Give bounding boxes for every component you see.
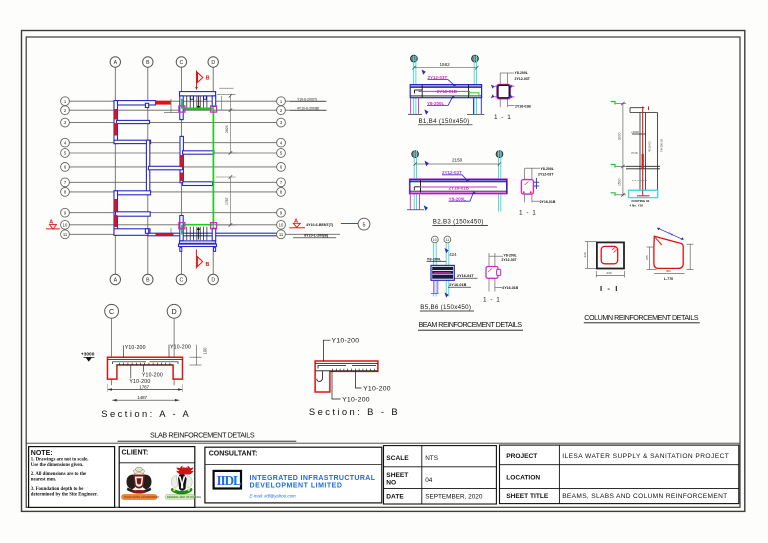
magenta column markers at stair corners <box>179 106 217 229</box>
svg-text:DATE: DATE <box>386 493 404 500</box>
svg-text:Y10-200: Y10-200 <box>363 385 391 392</box>
columns cyan detail 3 <box>434 243 449 296</box>
stub at B11 <box>145 229 148 234</box>
svg-text:2Y12-03T: 2Y12-03T <box>515 77 531 81</box>
beam A9-B9 <box>116 212 151 216</box>
bent bar black dims <box>647 244 694 273</box>
svg-text:B: B <box>146 60 150 66</box>
svg-text:LOCATION: LOCATION <box>506 475 540 482</box>
svg-text:3. Foundation depth to be: 3. Foundation depth to be <box>31 487 84 492</box>
svg-text:2. All dimensions are to the: 2. All dimensions are to the <box>31 472 86 477</box>
svg-text:1487: 1487 <box>137 395 147 400</box>
stair stubs bottom <box>180 248 182 252</box>
svg-text:11: 11 <box>446 238 450 242</box>
svg-text:2Y16-01B: 2Y16-01B <box>437 89 458 94</box>
svg-text:C: C <box>180 277 184 283</box>
section 1-1 of B1,B4 <box>500 73 514 107</box>
svg-text:Y8-200L: Y8-200L <box>503 253 517 257</box>
svg-text:B5,B6 (150x450): B5,B6 (150x450) <box>420 304 471 311</box>
svg-text:C: C <box>109 307 114 316</box>
svg-text:SHEET TITLE: SHEET TITLE <box>506 493 549 500</box>
svg-text:2Y16-01B: 2Y16-01B <box>540 200 556 204</box>
svg-text:DEVELOPMENT LIMITED: DEVELOPMENT LIMITED <box>250 483 342 490</box>
svg-text:2150: 2150 <box>452 158 463 163</box>
svg-text:Y8-200L: Y8-200L <box>427 258 442 262</box>
grid bubbles A-D bottom <box>110 274 218 284</box>
dim 2150 <box>415 163 499 165</box>
svg-text:Y8-200L: Y8-200L <box>427 101 445 106</box>
bent bar blue dim <box>658 228 683 239</box>
svg-text:Use the dimensions given.: Use the dimensions given. <box>31 463 84 468</box>
svg-text:100: 100 <box>203 347 208 355</box>
foundation cyan <box>629 190 658 197</box>
svg-text:nearest mm.: nearest mm. <box>31 478 56 483</box>
hangers magenta detail 3 <box>431 280 439 293</box>
red column segments on grid A lower <box>114 199 117 212</box>
stair mid landing line top <box>184 109 211 111</box>
CLIENT box <box>119 447 195 508</box>
small texts on column elevation <box>631 130 639 155</box>
wall beam grid D above stair bottom <box>212 228 216 240</box>
red beam segment row 1 <box>156 101 171 105</box>
svg-text:C: C <box>180 60 184 66</box>
beam B6-C6 <box>148 166 182 170</box>
svg-text:+3000: +3000 <box>631 130 639 134</box>
client logo right (Nigeria coat of arms) <box>171 466 194 495</box>
IIDL logo <box>214 471 241 489</box>
wall beam grid D below stair top <box>212 96 216 107</box>
beam A11-B11 wide <box>114 229 150 236</box>
svg-text:D: D <box>171 307 176 316</box>
beam detail B5,B6 grid bubbles <box>431 236 450 243</box>
svg-text:D: D <box>211 277 215 283</box>
section A-A slab outline red <box>108 357 183 379</box>
client banner right (green) <box>165 494 195 499</box>
svg-text:2Y12-03T: 2Y12-03T <box>501 258 517 262</box>
svg-text:SLAB REINFORCEMENT DETAILS: SLAB REINFORCEMENT DETAILS <box>150 431 255 440</box>
column elevation body <box>626 108 660 191</box>
svg-text:B: B <box>206 75 210 81</box>
svg-text:1 - 1: 1 - 1 <box>483 297 501 304</box>
red beam segment row 11 <box>156 233 174 236</box>
NOTE box <box>29 447 115 508</box>
beam A3-B3 <box>117 120 150 123</box>
column section dims <box>585 242 624 278</box>
svg-text:2Y12-03T: 2Y12-03T <box>428 75 448 80</box>
svg-text:04: 04 <box>425 477 433 484</box>
svg-text:1 - 1: 1 - 1 <box>519 210 537 217</box>
rebar labels magenta detail 2 <box>442 170 470 202</box>
svg-text:11: 11 <box>63 232 68 237</box>
svg-text:A: A <box>114 277 118 283</box>
svg-text:B1,B4 (150x450): B1,B4 (150x450) <box>419 118 470 125</box>
grid bubbles 1-11 left <box>61 97 70 239</box>
svg-text:Y10-200: Y10-200 <box>125 345 146 351</box>
grid bubbles 1-11 right <box>277 97 286 239</box>
svg-text:CLIENT:: CLIENT: <box>122 450 149 457</box>
svg-text:424: 424 <box>449 252 457 257</box>
beam row 11 from B to right <box>148 233 277 236</box>
svg-text:375: 375 <box>645 255 649 260</box>
svg-text:SCALE: SCALE <box>386 455 409 462</box>
beam C5-D5 <box>183 151 214 154</box>
stair treads top <box>187 96 207 108</box>
svg-text:I - I: I - I <box>600 284 619 293</box>
svg-text:10: 10 <box>433 238 437 242</box>
svg-text:1. Drawings are not to scale.: 1. Drawings are not to scale. <box>31 457 89 462</box>
green edge at grid C top <box>181 99 183 109</box>
client logo left (state coat of arms) <box>127 467 152 494</box>
beam detail B2,B3 columns (cyan) <box>414 151 501 212</box>
stair stub 1 <box>190 96 193 99</box>
svg-text:Y10-200: Y10-200 <box>342 396 370 403</box>
wall beam on grid B rows 4-8 <box>146 140 149 195</box>
svg-text:Y8-200L: Y8-200L <box>541 167 555 171</box>
svg-text:11: 11 <box>279 232 284 237</box>
svg-text:2Y16-04T: 2Y16-04T <box>457 274 474 278</box>
wall beam grid C above stair bottom <box>180 228 183 240</box>
svg-text:SEPTEMBER, 2020: SEPTEMBER, 2020 <box>425 493 483 500</box>
svg-text:PROJECT: PROJECT <box>506 453 537 460</box>
svg-text:2Y12-03T: 2Y12-03T <box>538 173 554 177</box>
column rebar red <box>642 107 644 197</box>
svg-text:OSUN STATE GOVERNMENT: OSUN STATE GOVERNMENT <box>124 495 160 499</box>
svg-text:230: 230 <box>607 271 612 275</box>
dim 1487 <box>112 399 179 401</box>
beam detail B1,B4 dim 1562 <box>414 67 477 69</box>
beam stub at B1 <box>145 103 148 107</box>
svg-text:CONSULTANT:: CONSULTANT: <box>209 450 258 457</box>
svg-text:Y8-200L: Y8-200L <box>515 71 529 75</box>
svg-text:B: B <box>206 262 210 268</box>
rebar labels magenta detail 1 <box>427 75 458 106</box>
Y10-200 labels section A-A <box>125 345 191 385</box>
svg-text:Y8-200L: Y8-200L <box>449 197 467 202</box>
svg-text:B: B <box>146 277 150 283</box>
column elevation dim line <box>615 103 627 196</box>
svg-text:A: A <box>114 60 118 66</box>
stairwell top: beam C1-D1 <box>180 92 216 96</box>
svg-text:3000: 3000 <box>618 132 622 140</box>
svg-text:Y10-200: Y10-200 <box>170 345 191 351</box>
floor plan: vertical grid lines A-D <box>115 67 213 276</box>
beam A4-B4 <box>114 140 151 143</box>
svg-text:D: D <box>211 60 215 66</box>
beam A8-B8 <box>114 191 151 195</box>
svg-text:SHEET: SHEET <box>386 472 408 479</box>
footing caption <box>630 199 650 207</box>
svg-text:NO: NO <box>386 480 396 487</box>
svg-text:10: 10 <box>63 222 68 227</box>
svg-text:Y10-200: Y10-200 <box>142 373 163 379</box>
stairwell bottom: beams C11-D11 <box>180 241 216 243</box>
wall beam grid C below stair top <box>180 96 183 120</box>
section 1-1 of B2,B3 <box>525 168 540 202</box>
svg-text:1500: 1500 <box>618 178 622 186</box>
stair treads bottom <box>187 227 207 240</box>
beam detail B1,B4 grid bubbles <box>411 55 479 62</box>
consultant name blue <box>250 475 376 489</box>
svg-text:360: 360 <box>666 269 671 273</box>
svg-text:FEDERAL REP. OF NIGERIA: FEDERAL REP. OF NIGERIA <box>167 495 201 499</box>
svg-text:5: 5 <box>363 222 366 228</box>
svg-text:8Y10-L-200(B): 8Y10-L-200(B) <box>304 233 329 237</box>
svg-text:NTS: NTS <box>425 455 438 462</box>
svg-text:2Y16-01B: 2Y16-01B <box>449 186 470 191</box>
svg-text:4Y16-03: 4Y16-03 <box>648 141 652 152</box>
svg-text:230: 230 <box>583 252 587 257</box>
section A-A slab rebar black <box>108 360 182 365</box>
section B-B slab outline red <box>315 361 378 392</box>
green edge at grid C bottom <box>181 225 183 235</box>
svg-text:2Y16-01B: 2Y16-01B <box>502 286 518 290</box>
svg-text:1562: 1562 <box>440 62 451 67</box>
wall beam on grid A rows 1-4 <box>114 101 118 144</box>
PROJECT table <box>500 445 739 504</box>
wall beam on grid A rows 8-11 <box>114 191 118 235</box>
bent bar detail <box>654 236 683 268</box>
svg-text:2Y12-03T: 2Y12-03T <box>442 170 462 175</box>
svg-text:IIDL: IIDL <box>217 473 242 488</box>
dim 1787 <box>108 389 183 391</box>
plan dimension lines right of grid D <box>216 88 236 225</box>
green bar end detail 1 <box>469 93 479 96</box>
svg-text:4Y10-6-200(B): 4Y10-6-200(B) <box>297 106 319 110</box>
svg-text:COLUMN REINFORCEMENT DETAILS: COLUMN REINFORCEMENT DETAILS <box>584 313 698 322</box>
stair stub 2 <box>204 96 207 99</box>
Y10-200 labels section B-B <box>332 338 391 404</box>
green level markers <box>611 102 616 196</box>
SCALE table <box>384 446 497 504</box>
svg-text:INTEGRATED INFRASTRUCTURAL: INTEGRATED INFRASTRUCTURAL <box>250 475 376 482</box>
svg-text:2825: 2825 <box>225 125 229 133</box>
hanger bars detail 1 <box>411 98 419 114</box>
svg-text:4Y16: 4Y16 <box>631 151 638 155</box>
svg-text:2Y16-01B: 2Y16-01B <box>515 104 531 108</box>
section B-B rebar black <box>315 363 377 381</box>
section marker B top <box>197 71 203 89</box>
stair direction arrow bottom <box>198 230 200 240</box>
svg-text:Y10-200: Y10-200 <box>332 338 360 345</box>
svg-text:NOTE:: NOTE: <box>31 450 53 457</box>
section marker B bottom <box>196 249 202 268</box>
beam B1,B4 body <box>410 85 481 98</box>
mid rebar magenta detail 1 <box>419 90 471 92</box>
green slab edge rectangle C2-D10 <box>182 99 214 235</box>
wall beam on grid C rows 4-7 <box>180 136 183 182</box>
dim 100 right <box>190 345 202 365</box>
tick mark near red beam end top <box>164 99 179 233</box>
detail bubble row10 <box>358 218 370 230</box>
red column segments on grid A upper <box>114 101 183 236</box>
grid bubbles A-D top <box>110 57 218 67</box>
section marker A left <box>49 220 53 226</box>
floor plan: horizontal grid lines 1-11 <box>70 101 341 234</box>
wall beam on grid C rows 10-11 <box>180 216 183 230</box>
client banner left (orange) <box>122 494 158 499</box>
section cut marks detail 1 <box>422 69 429 114</box>
svg-text:B2,B3 (150x450): B2,B3 (150x450) <box>433 218 484 225</box>
svg-text:L-770: L-770 <box>664 277 673 281</box>
beam B5,B6 body <box>431 265 454 280</box>
CONSULTANT box <box>205 447 382 503</box>
svg-text:determined by the Site Enginee: determined by the Site Engineer. <box>31 492 98 497</box>
stair direction arrow top <box>198 97 200 107</box>
svg-text:4 No. Y16: 4 No. Y16 <box>630 203 644 207</box>
beam detail B2,B3 grid bubbles <box>412 151 503 158</box>
svg-text:ILESA WATER SUPPLY & SANITATIO: ILESA WATER SUPPLY & SANITATION PROJECT <box>562 453 729 460</box>
column section 1-1 square <box>597 242 624 268</box>
svg-text:1 - 1: 1 - 1 <box>494 114 512 121</box>
svg-text:4Y10-6-BENT(T): 4Y10-6-BENT(T) <box>306 223 334 227</box>
svg-text:2Y16-01B: 2Y16-01B <box>449 283 466 287</box>
red column segments on grid C mid <box>180 155 183 167</box>
svg-text:10: 10 <box>279 222 284 227</box>
section 1-1 of B5,B6 <box>489 253 503 292</box>
beam A1-B1 top <box>114 101 156 105</box>
svg-text:1787: 1787 <box>139 384 149 389</box>
beam detail B1,B4 columns (cyan) <box>414 56 477 115</box>
beam C7-D7 <box>183 182 213 186</box>
title block top rule <box>26 442 740 444</box>
svg-text:Y10-6-200(T): Y10-6-200(T) <box>297 97 317 101</box>
hanger bars detail 2 <box>410 193 419 209</box>
section A-A grid bubbles C and D <box>105 304 181 318</box>
svg-text:+3000: +3000 <box>81 352 95 358</box>
svg-text:BEAM REINFORCEMENT DETAILS: BEAM REINFORCEMENT DETAILS <box>419 320 523 329</box>
beam B2,B3 body <box>409 179 507 194</box>
svg-text:Y8-200-02: Y8-200-02 <box>660 138 664 152</box>
svg-text:E-mail: iidl@yahoo.com: E-mail: iidl@yahoo.com <box>250 494 297 499</box>
svg-text:1787: 1787 <box>225 197 229 205</box>
svg-text:BEAMS, SLABS AND COLUMN REINFO: BEAMS, SLABS AND COLUMN REINFORCEMENT <box>562 493 727 500</box>
